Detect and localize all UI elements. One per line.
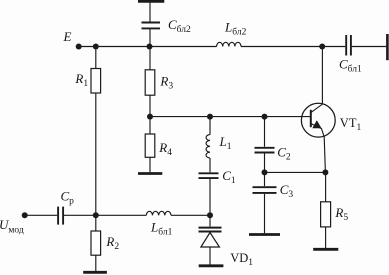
resistor R2 [91,231,101,255]
inductor Lбл1 [146,211,171,215]
capacitor C2 [255,148,275,153]
node R1/R2 junction [93,212,99,218]
wire junction to L1 [209,117,211,135]
ground under VD1 [199,264,224,267]
wire collector to top rail [321,47,323,105]
wire top rail right [241,46,345,48]
capacitor C3 [253,187,277,193]
ground top (above Cбл2) [138,0,164,3]
resistor R4 [145,134,155,157]
node R1 top junction [93,44,99,50]
wire junction to R2 [95,215,97,231]
wire rail to R3 [149,47,151,70]
capacitor Cбл1 [346,35,351,56]
wire ground to Cбл2 [149,3,151,22]
node Uмод terminal [22,212,28,218]
node E terminal [76,44,82,50]
node Cбл2/R3 junction [147,44,153,50]
node C2 top junction [262,114,268,120]
ground under R4 [138,172,162,175]
wire C2 to emitter rail [264,153,266,172]
node L1 top junction [207,114,213,120]
wire L1 to C1 [209,158,211,172]
resistor R1 [91,69,101,94]
capacitor C1 [199,173,219,178]
inductor L1 [206,135,210,158]
node emitter/R5 junction [322,169,328,175]
node C1/VD1 junction [207,212,213,218]
wire Cбл2 to rail [149,29,151,46]
varicap diode VD1 [199,215,222,264]
wire junction to R4 [149,117,151,134]
ground under R2 [83,271,107,274]
node R3/R4 junction [147,114,153,120]
wire Uмод to Cр [25,214,58,216]
ground under R5 [313,248,338,251]
resistor R5 [321,202,331,227]
capacitor Cр [58,207,63,225]
wire to output bar [352,46,387,48]
wire Lбл1 to VD1 junction [171,214,210,216]
wire R1 to bottom rail [95,93,97,215]
wire R5 to ground [325,227,327,248]
wire junction to R5 [325,172,327,201]
wire junction to C3 [264,172,266,186]
wire top rail left [79,46,217,48]
wire R3 to base rail [149,95,151,116]
wire base rail [150,116,310,118]
transistor VT1 [301,103,335,137]
resistor R3 [145,70,155,95]
wire Cр to junction [64,214,146,216]
wire R2 to ground [95,255,97,271]
wire emitter rail [265,171,326,173]
inductor Lбл2 [217,42,241,46]
wire emitter to rail [324,137,325,172]
capacitor Cбл2 [142,23,161,29]
node collector junction [319,44,325,50]
wire junction to C2 [264,117,266,147]
wire C1 to bottom rail [209,179,211,215]
node C2/C3 junction [262,169,268,175]
wire C3 to ground [264,194,266,233]
output terminal bar [386,34,389,60]
wire rail to R1 [95,47,97,69]
svg-text:E: E [63,29,72,44]
wire R4 to ground [149,157,151,172]
ground under C3 [249,233,280,236]
